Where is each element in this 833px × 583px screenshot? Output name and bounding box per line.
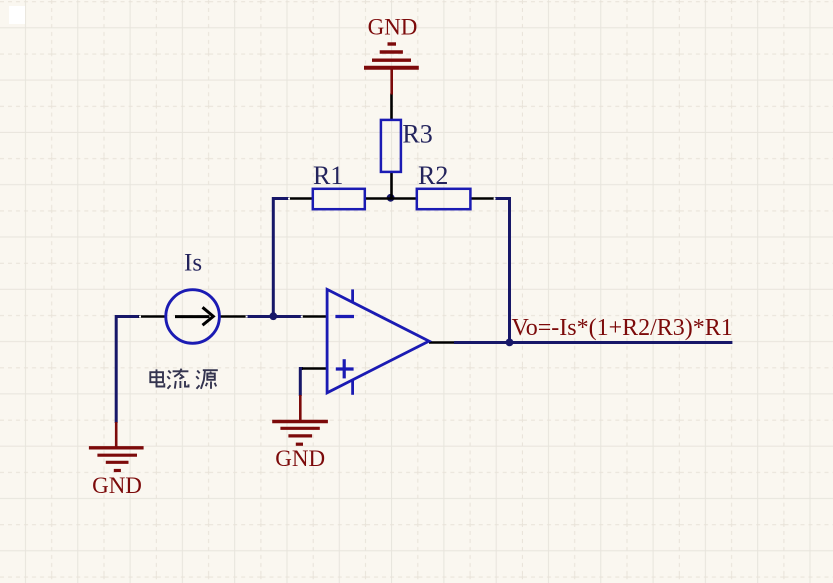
- svg-text:Is: Is: [184, 250, 202, 277]
- svg-text:GND: GND: [275, 446, 325, 471]
- svg-text:R3: R3: [402, 120, 432, 149]
- svg-text:GND: GND: [368, 15, 418, 40]
- svg-text:R1: R1: [313, 161, 343, 190]
- svg-text:GND: GND: [92, 473, 142, 498]
- svg-text:R2: R2: [418, 161, 448, 190]
- svg-text:Vo=-Is*(1+R2/R3)*R1: Vo=-Is*(1+R2/R3)*R1: [512, 315, 733, 341]
